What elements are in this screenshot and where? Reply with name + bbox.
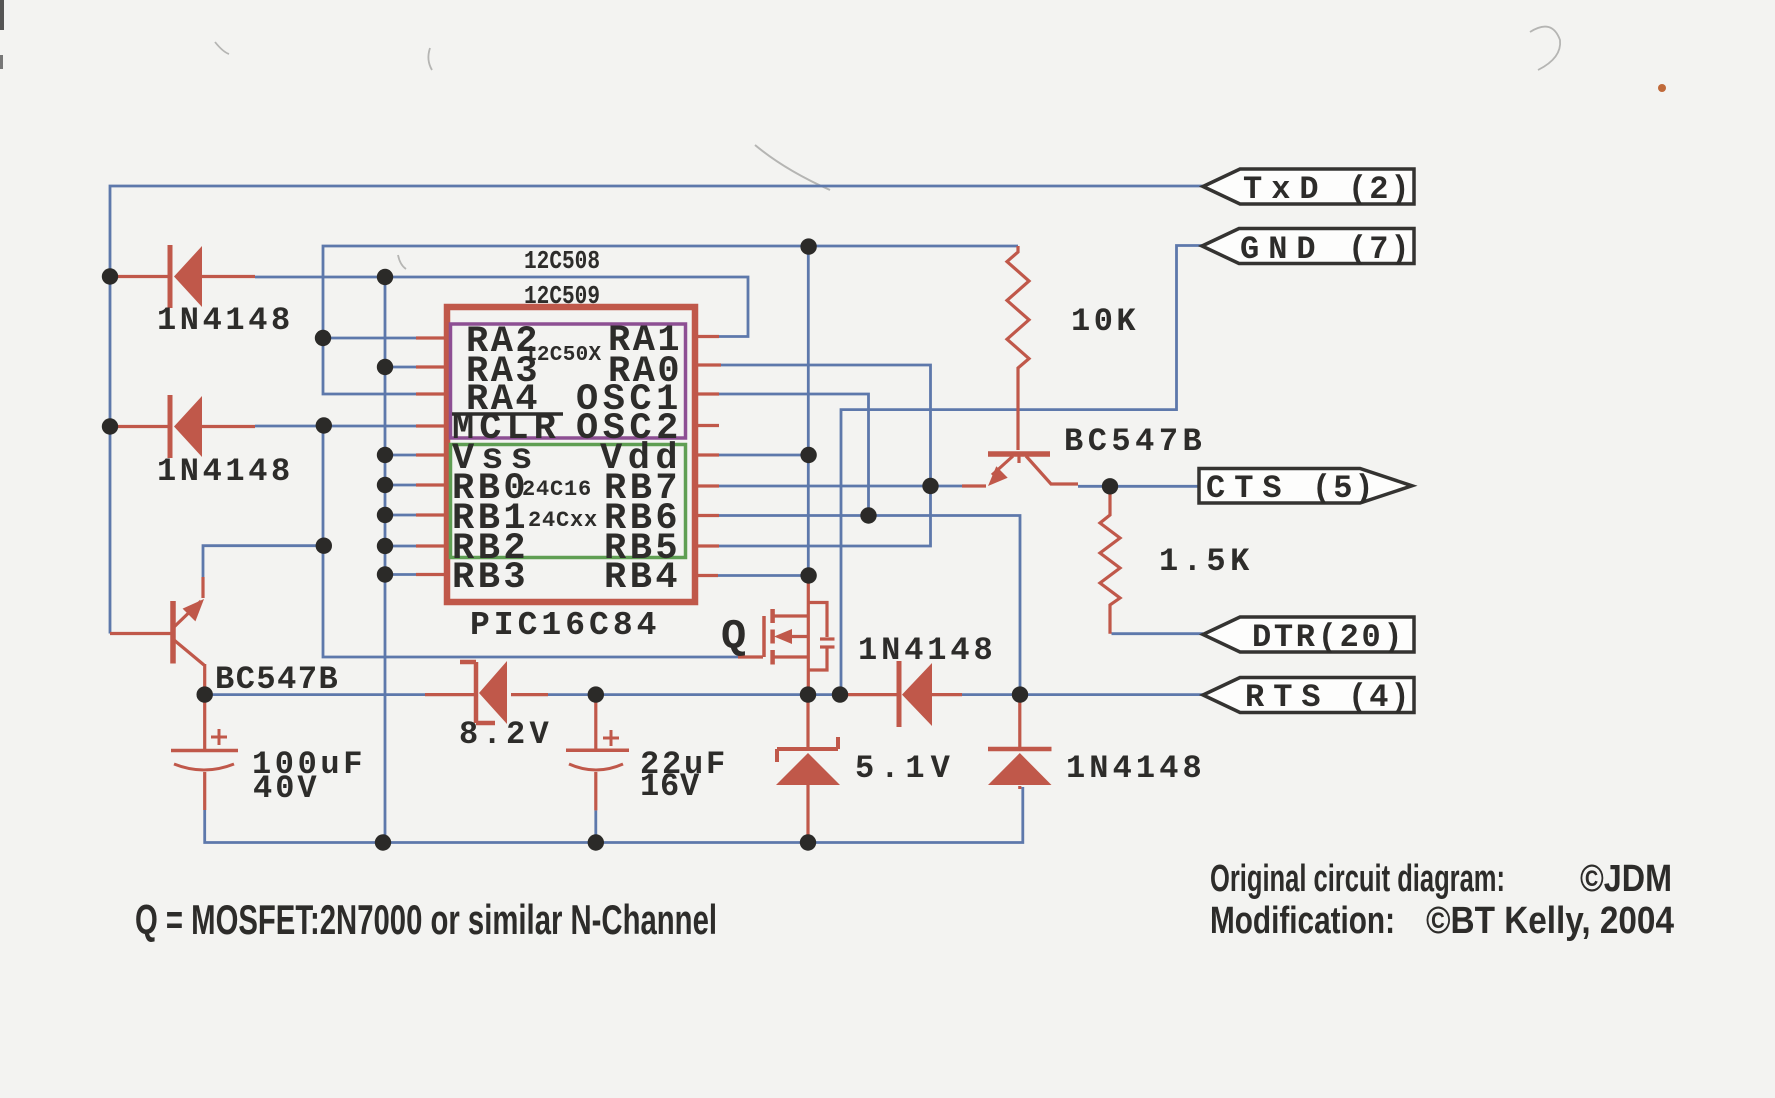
wire RB4 row — [718, 574, 809, 577]
wire RB3 to line B — [385, 573, 416, 576]
junction RB4 row / mosfet drain — [800, 567, 816, 583]
transistor Q2 emitter arrow — [988, 466, 1008, 486]
svg-text:RTS: RTS — [1245, 679, 1330, 716]
junction RB6 vertical / D4 / RTS row — [1012, 686, 1028, 702]
wire RB1 to line B — [385, 514, 416, 517]
svg-text:©BT Kelly, 2004: ©BT Kelly, 2004 — [1426, 900, 1674, 942]
transistor Q2 BC547B emitter diagonal — [992, 456, 1013, 475]
junction CTS node / 1.5K — [1102, 478, 1118, 494]
diode D4 1N4148 body (vertical) — [988, 749, 1052, 785]
junction line B / Vss — [377, 447, 393, 463]
diode D1 1N4148 body — [170, 245, 202, 308]
scan artifact marks — [215, 27, 1560, 269]
svg-text:Original circuit diagram:: Original circuit diagram: — [1210, 858, 1505, 900]
mosfet Q drain/arrow/source connections — [773, 614, 808, 617]
resistor R2 1.5K — [1100, 489, 1120, 634]
junction line A / MCLR — [316, 417, 332, 433]
svg-text:16V: 16V — [640, 768, 700, 805]
wire RA2 to line A — [323, 337, 416, 340]
transistor Q1 BC547B base wire — [110, 632, 171, 635]
svg-text:24C16: 24C16 — [522, 477, 592, 502]
connector DTR(20) — [1203, 617, 1414, 656]
svg-text:PIC16C84: PIC16C84 — [470, 607, 660, 644]
svg-text:1N4148: 1N4148 — [858, 632, 997, 669]
wire TxD net: top rail and left bus down to Q1 base — [110, 186, 1203, 634]
svg-text:1.5K: 1.5K — [1159, 543, 1254, 580]
transistor Q1 emitter arrow — [183, 599, 204, 621]
svg-text:1N4148: 1N4148 — [1066, 750, 1206, 787]
svg-text:1N4148: 1N4148 — [157, 453, 294, 490]
svg-text:GND: GND — [1240, 231, 1325, 268]
svg-text:Q = MOSFET:2N7000 or similar N: Q = MOSFET:2N7000 or similar N-Channel — [135, 896, 717, 943]
junction line B / RA3 — [377, 359, 393, 375]
mosfet Q substrate arrow — [774, 629, 792, 644]
junction line B / RB3 — [377, 566, 393, 582]
junction line B / RB1 — [377, 507, 393, 523]
junction mosfet source / zener / RTS row — [800, 686, 816, 702]
svg-text:1N4148: 1N4148 — [157, 302, 294, 339]
junction line A / RB2 emitter wire — [316, 538, 332, 554]
wire RB2 to line B — [385, 545, 416, 548]
wire RB7 red segment to Q2 emitter arrow — [962, 484, 986, 487]
wire OSC1 over and down to RB6 row — [719, 394, 869, 516]
diode D1 1N4148 leads — [110, 275, 168, 278]
wire Q1 emitter to line A seg2 — [203, 546, 324, 577]
svg-text:12C508: 12C508 — [524, 246, 600, 276]
zener D6 5.1V leads — [806, 697, 809, 748]
wire RTS row mid blue segment — [548, 693, 840, 696]
transistor Q1 emitter diagonal and vertical — [174, 601, 201, 627]
U1 RA4 underline / MCLR overline bar — [452, 412, 563, 416]
diode D3 1N4148 leads on RTS row — [840, 693, 897, 696]
resistor R1 10K — [1007, 246, 1029, 450]
connector TxD (2) — [1203, 169, 1414, 208]
mosfet Q drain-source spine — [807, 578, 810, 692]
junction RB7 row / RA0-RB5 vertical — [922, 478, 938, 494]
svg-text:5.1V: 5.1V — [855, 750, 956, 787]
op-amp U1 outer box — [447, 307, 695, 602]
wire RA0 over to RB5 vertical — [719, 365, 931, 546]
U1 green group box — [451, 445, 686, 558]
junction left bus / D1 — [102, 268, 118, 284]
junction bottom rail / 5.1V zener — [800, 834, 816, 850]
wire DTR row — [1112, 632, 1204, 635]
capacitor C2 22uF plates — [566, 730, 629, 770]
junction line B top — [377, 269, 393, 285]
wire Vdd vertical bus x=808.6 — [807, 247, 810, 576]
wire diode D1 row to RA1 wrap-around — [255, 277, 748, 337]
svg-text:CTS: CTS — [1206, 470, 1291, 507]
svg-text:40V: 40V — [253, 770, 320, 807]
junction Vdd row / vertical bus — [800, 447, 816, 463]
wire Vss to line B — [385, 454, 416, 457]
wire CTS row — [1078, 485, 1199, 488]
svg-text:RB3: RB3 — [452, 557, 529, 599]
connector RTS (4) — [1203, 678, 1414, 717]
junction left bus / D2 — [102, 418, 118, 434]
svg-text:BC547B: BC547B — [215, 661, 339, 698]
svg-text:10K: 10K — [1071, 303, 1139, 340]
capacitor C1 100uF leads — [203, 697, 206, 750]
wire RTS row right blue segment — [962, 693, 1203, 696]
connector GND (7) — [1202, 229, 1414, 269]
wire MCLR row (diode D2 to IC) — [255, 425, 416, 428]
svg-text:RB4: RB4 — [604, 557, 681, 599]
transistor Q1 collector diagonal and vertical — [174, 640, 204, 665]
transistor Q1 BC547B base bar — [170, 601, 176, 664]
wire RB0 to line B — [385, 484, 416, 487]
wire RB7 row to Q2 emitter — [719, 485, 962, 488]
wire RTS row left blue segment — [205, 693, 425, 696]
transistor Q2 base stub below bar — [1017, 454, 1020, 463]
zener D6 5.1V body (vertical) — [776, 737, 840, 785]
wire line A seg2: MCLR junction down past RB2 to Q gate — [323, 426, 738, 658]
diode D2 1N4148 leads — [110, 425, 168, 428]
capacitor C2 22uF leads — [594, 697, 597, 750]
resistor R1 10K to Q2 base bar — [988, 451, 1050, 457]
svg-text:8.2V: 8.2V — [459, 716, 553, 753]
junction RB6 row / OSC1 vertical — [860, 507, 876, 523]
transistor Q2 collector diagonal and wire to CTS — [1026, 456, 1078, 484]
junction bottom rail / 22uF — [588, 834, 604, 850]
wire Vdd top rail from line A to 10K, line A seg1 down to RA4 — [323, 246, 1018, 394]
junction line B / RB0 — [377, 477, 393, 493]
wire bottom ground rail — [205, 787, 1023, 843]
zener D5 8.2V leads on RTS row — [425, 693, 474, 696]
svg-text:Modification:: Modification: — [1210, 900, 1395, 942]
junction Q1 collector / RTS row — [197, 686, 213, 702]
diode D2 1N4148 body — [170, 395, 202, 458]
svg-text:(5): (5) — [1312, 470, 1376, 507]
svg-text:DTR(20): DTR(20) — [1252, 619, 1405, 656]
svg-text:12C50X: 12C50X — [524, 344, 602, 367]
mosfet Q body diode branch — [808, 603, 827, 638]
junction Vdd rail / vertical bus — [800, 238, 816, 254]
mosfet Q gate stub — [738, 655, 763, 658]
wire line B vertical bus — [384, 277, 387, 843]
mosfet Q channel bars — [770, 609, 775, 665]
junction GND vertical / RTS row — [832, 686, 848, 702]
svg-text:©JDM: ©JDM — [1580, 858, 1672, 900]
svg-text:(4): (4) — [1348, 679, 1412, 716]
wire RB6 row out to corner and down to RTS row — [719, 516, 1020, 692]
wire Vdd row to vertical bus — [719, 454, 809, 457]
U1 purple group box — [451, 324, 686, 438]
svg-text:12C509: 12C509 — [524, 281, 600, 311]
diode D3 1N4148 body — [899, 661, 932, 727]
wire 22uF bottom lead — [594, 810, 597, 842]
svg-text:24Cxx: 24Cxx — [528, 508, 598, 533]
svg-text:Q: Q — [721, 613, 746, 661]
capacitor C1 100uF plates — [171, 729, 238, 770]
wire GND connector path — [841, 246, 1202, 695]
junction bottom rail / line B — [375, 834, 391, 850]
connector CTS (5) — [1199, 469, 1412, 508]
mosfet Q gate plate — [762, 616, 766, 657]
wire RA3 to line B — [385, 366, 416, 369]
junction line B / RB2 — [377, 538, 393, 554]
diode D4 1N4148 vertical leads — [1018, 697, 1021, 748]
svg-text:(7): (7) — [1348, 231, 1412, 268]
svg-text:BC547B: BC547B — [1064, 423, 1206, 460]
zener D5 8.2V body — [460, 661, 507, 724]
svg-text:(2): (2) — [1348, 171, 1412, 208]
IC left pin stubs — [416, 336, 447, 339]
junction line A / RA2 — [315, 330, 331, 346]
svg-text:TxD: TxD — [1243, 171, 1328, 208]
junction 22uF / RTS row — [588, 686, 604, 702]
IC right pin stubs — [695, 335, 719, 338]
